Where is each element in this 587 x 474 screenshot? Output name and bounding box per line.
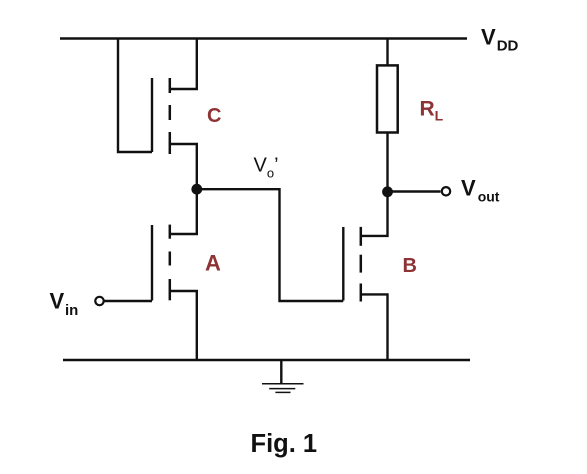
svg-text:RL: RL <box>420 98 444 124</box>
transistor C channel (dashed) <box>169 78 172 154</box>
ground symbol bar 3 <box>275 391 290 393</box>
output terminal circle <box>442 187 450 195</box>
wire: transistor A source tap to ground rail <box>170 291 197 360</box>
resistor RL body <box>377 65 398 132</box>
transistor A gate bar <box>151 225 153 301</box>
svg-text:B: B <box>403 255 417 277</box>
svg-text:Vout: Vout <box>461 176 500 205</box>
wire: ground rail <box>63 359 470 361</box>
wire: transistor B drain tap to Vout node <box>362 192 388 236</box>
ground symbol bar 1 <box>262 383 304 385</box>
wire: VDD rail <box>60 37 467 39</box>
wire: ground stub <box>280 360 282 383</box>
wire: transistor C gate to VDD <box>118 39 152 153</box>
transistor C gate bar <box>151 78 153 152</box>
wire: resistor RL to Vout node <box>386 133 388 192</box>
wire: VDD to resistor RL <box>386 39 388 66</box>
transistor B channel (dashed) <box>360 227 363 302</box>
svg-text:Vin: Vin <box>50 289 79 319</box>
node Vout (junction dot) <box>382 186 393 197</box>
svg-text:C: C <box>207 105 221 127</box>
input terminal circle <box>95 297 103 305</box>
transistor B gate bar <box>342 227 344 301</box>
ground symbol bar 2 <box>269 388 295 390</box>
wire: transistor A drain tap to node Vo' <box>170 189 197 234</box>
svg-text:A: A <box>205 250 221 275</box>
wire: Vout node to output terminal <box>388 190 441 192</box>
svg-text:Fig. 1: Fig. 1 <box>251 430 318 458</box>
wire: node Vo' to transistor B gate <box>197 189 343 301</box>
node Vo' (junction dot) <box>191 184 202 195</box>
wire: transistor C source tap to node Vo' <box>170 144 197 189</box>
wire: Vin gate lead <box>105 300 153 302</box>
svg-text:Vo’: Vo’ <box>254 154 279 180</box>
wire: transistor B source tap to ground rail <box>362 294 388 360</box>
svg-text:VDD: VDD <box>481 25 519 55</box>
transistor A channel (dashed) <box>169 225 172 301</box>
wire: transistor C drain tap to VDD <box>170 39 197 90</box>
